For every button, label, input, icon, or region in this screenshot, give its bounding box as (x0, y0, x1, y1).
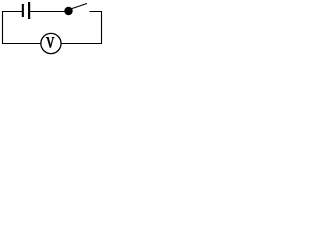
battery B1 right plate (long) (28, 2, 30, 19)
switch S1 open arm (68, 4, 87, 10)
voltmeter V1 label V (46, 37, 55, 48)
wire: top-left from battery to left corner, down left side, to voltmeter (3, 12, 41, 44)
battery B1 left plate (short) (22, 4, 24, 17)
switch S1 pivot dot (64, 7, 72, 15)
voltmeter V1 body (41, 33, 61, 53)
wire: battery to switch pivot (30, 11, 69, 13)
wire: switch contact, right side down, to voltmeter (60, 12, 101, 44)
